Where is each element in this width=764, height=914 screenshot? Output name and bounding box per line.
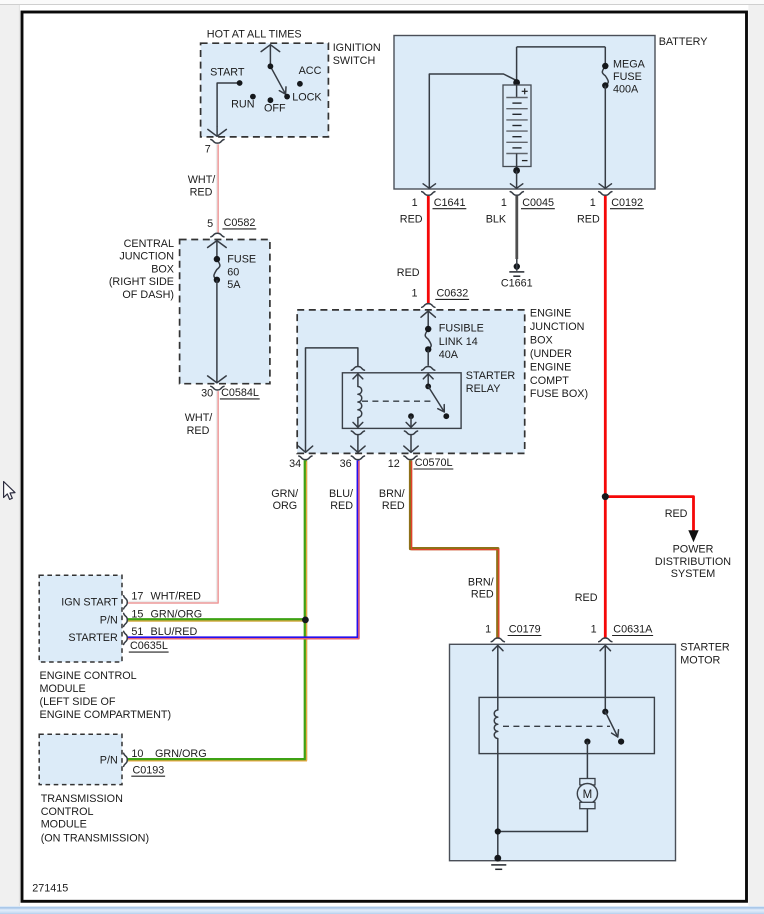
svg-text:WHT/RED: WHT/RED (151, 591, 202, 603)
svg-text:WHT/: WHT/ (185, 412, 213, 424)
svg-text:400A: 400A (613, 84, 639, 96)
svg-text:MOTOR: MOTOR (680, 655, 720, 667)
svg-text:BRN/: BRN/ (379, 488, 405, 500)
svg-text:MODULE: MODULE (41, 819, 87, 831)
svg-text:C0632: C0632 (437, 288, 469, 300)
svg-text:BATTERY: BATTERY (659, 36, 708, 48)
svg-text:BRN/: BRN/ (468, 576, 494, 588)
svg-text:FUSIBLE: FUSIBLE (439, 323, 484, 335)
svg-text:1: 1 (501, 197, 507, 209)
svg-text:START: START (210, 66, 245, 78)
svg-text:JUNCTION: JUNCTION (530, 321, 585, 333)
svg-text:RED: RED (397, 267, 420, 279)
svg-text:C0582: C0582 (224, 217, 256, 229)
svg-text:C0584L: C0584L (221, 387, 259, 399)
svg-text:12: 12 (388, 458, 400, 470)
svg-text:C0631A: C0631A (613, 624, 653, 636)
svg-text:HOT AT ALL TIMES: HOT AT ALL TIMES (207, 29, 302, 41)
svg-text:1: 1 (411, 288, 417, 300)
svg-text:IGN START: IGN START (61, 597, 118, 609)
svg-text:C0570L: C0570L (415, 457, 453, 469)
svg-text:POWER: POWER (673, 544, 714, 556)
svg-text:ENGINE CONTROL: ENGINE CONTROL (40, 670, 137, 682)
svg-text:TRANSMISSION: TRANSMISSION (41, 793, 123, 805)
svg-text:C0045: C0045 (522, 197, 554, 209)
svg-text:RED: RED (190, 187, 213, 199)
svg-text:MODULE: MODULE (40, 683, 86, 695)
svg-text:271415: 271415 (32, 883, 68, 895)
svg-text:FUSE: FUSE (613, 71, 642, 83)
svg-text:40A: 40A (439, 349, 459, 361)
svg-text:5: 5 (207, 218, 213, 230)
svg-text:C1641: C1641 (434, 197, 466, 209)
svg-text:RED: RED (577, 213, 600, 225)
svg-text:ENGINE: ENGINE (530, 308, 571, 320)
svg-text:15: 15 (131, 608, 143, 620)
svg-text:36: 36 (340, 458, 352, 470)
svg-text:STARTER: STARTER (68, 632, 118, 644)
svg-text:BLU/: BLU/ (329, 488, 353, 500)
svg-text:1: 1 (591, 624, 597, 636)
svg-text:BLU/RED: BLU/RED (151, 626, 198, 638)
svg-text:ORG: ORG (273, 500, 298, 512)
svg-text:(LEFT SIDE OF: (LEFT SIDE OF (40, 696, 116, 708)
svg-text:IGNITION: IGNITION (333, 42, 381, 54)
svg-text:RUN: RUN (231, 99, 254, 111)
svg-text:DISTRIBUTION: DISTRIBUTION (655, 556, 731, 568)
svg-text:CONTROL: CONTROL (41, 806, 94, 818)
svg-text:ENGINE COMPARTMENT): ENGINE COMPARTMENT) (40, 709, 172, 721)
svg-text:RED: RED (330, 500, 353, 512)
svg-text:ACC: ACC (299, 65, 322, 77)
svg-text:51: 51 (131, 626, 143, 638)
svg-text:RED: RED (575, 592, 598, 604)
svg-text:STARTER: STARTER (466, 370, 516, 382)
svg-text:BOX: BOX (151, 263, 174, 275)
svg-text:C0179: C0179 (509, 624, 541, 636)
svg-text:GRN/ORG: GRN/ORG (155, 748, 207, 760)
svg-text:17: 17 (131, 591, 143, 603)
svg-text:GRN/ORG: GRN/ORG (151, 608, 203, 620)
svg-text:(ON TRANSMISSION): (ON TRANSMISSION) (41, 832, 149, 844)
svg-text:BLK: BLK (486, 213, 507, 225)
svg-text:SWITCH: SWITCH (333, 55, 376, 67)
svg-text:MEGA: MEGA (613, 59, 646, 71)
svg-text:BOX: BOX (530, 335, 553, 347)
svg-text:COMPT: COMPT (530, 375, 569, 387)
svg-text:P/N: P/N (100, 614, 118, 626)
svg-text:CENTRAL: CENTRAL (124, 238, 174, 250)
svg-text:GRN/: GRN/ (271, 488, 298, 500)
svg-text:FUSE BOX): FUSE BOX) (530, 388, 588, 400)
svg-text:C0193: C0193 (133, 764, 165, 776)
svg-text:30: 30 (201, 387, 213, 399)
svg-text:SYSTEM: SYSTEM (671, 568, 715, 580)
svg-text:(RIGHT SIDE: (RIGHT SIDE (109, 276, 174, 288)
svg-text:RED: RED (400, 213, 423, 225)
svg-text:C1661: C1661 (501, 278, 533, 290)
svg-text:34: 34 (289, 458, 301, 470)
svg-text:OFF: OFF (264, 102, 286, 114)
svg-text:ENGINE: ENGINE (530, 361, 571, 373)
svg-text:LOCK: LOCK (292, 91, 322, 103)
svg-text:RED: RED (187, 425, 210, 437)
svg-text:RELAY: RELAY (466, 383, 501, 395)
svg-text:RED: RED (382, 500, 405, 512)
svg-text:(UNDER: (UNDER (530, 348, 572, 360)
svg-text:1: 1 (412, 197, 418, 209)
svg-text:C0192: C0192 (611, 197, 643, 209)
svg-text:FUSE: FUSE (227, 254, 256, 266)
svg-text:10: 10 (131, 748, 143, 760)
svg-text:RED: RED (665, 508, 688, 520)
svg-text:JUNCTION: JUNCTION (119, 250, 174, 262)
svg-text:WHT/: WHT/ (188, 174, 216, 186)
svg-text:P/N: P/N (100, 754, 118, 766)
svg-text:60: 60 (227, 266, 239, 278)
svg-text:1: 1 (590, 197, 596, 209)
svg-text:7: 7 (205, 144, 211, 156)
svg-text:LINK 14: LINK 14 (439, 336, 478, 348)
svg-text:M: M (583, 789, 593, 801)
svg-text:OF DASH): OF DASH) (122, 289, 174, 301)
svg-text:RED: RED (471, 588, 494, 600)
svg-text:1: 1 (485, 624, 491, 636)
svg-text:C0635L: C0635L (130, 640, 168, 652)
svg-text:5A: 5A (227, 279, 241, 291)
svg-text:STARTER: STARTER (680, 642, 730, 654)
